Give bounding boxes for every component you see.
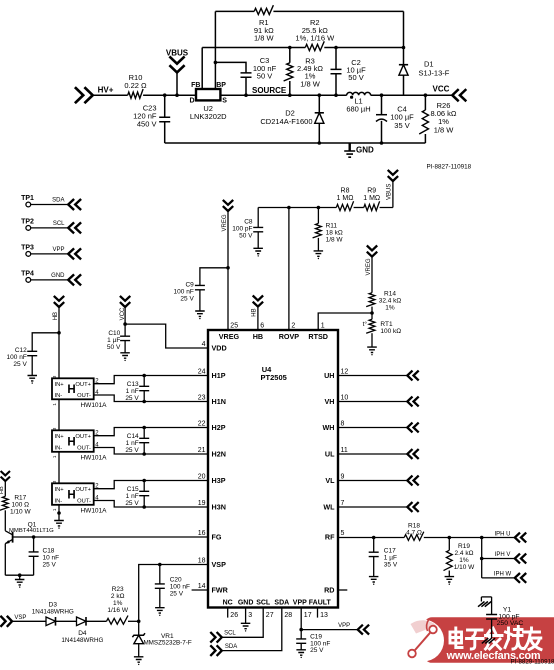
pin 22 H2P xyxy=(198,421,226,433)
wire xyxy=(424,536,515,540)
svg-text:12: 12 xyxy=(341,369,349,376)
resistor R8 xyxy=(336,188,353,211)
svg-text:HB: HB xyxy=(0,486,5,494)
pin 7 WL xyxy=(323,500,344,512)
wire xyxy=(143,94,196,96)
node VBUS xyxy=(166,49,189,97)
pin 1 RTSD xyxy=(308,323,328,341)
node HB xyxy=(53,296,64,320)
pin 16 FG xyxy=(198,530,222,542)
pin RD RD xyxy=(324,586,334,595)
pin 2 ROVP xyxy=(279,323,300,341)
svg-text:VCC: VCC xyxy=(433,84,450,93)
pin 13 FAULT xyxy=(309,599,332,619)
svg-text:1/8 W: 1/8 W xyxy=(326,236,344,243)
svg-text:IN-: IN- xyxy=(55,446,63,452)
svg-text:1N4148WRHG: 1N4148WRHG xyxy=(32,608,74,615)
svg-text:TP3: TP3 xyxy=(21,244,34,251)
svg-text:SDA: SDA xyxy=(52,198,64,204)
svg-text:10: 10 xyxy=(341,395,349,402)
svg-text:H: H xyxy=(67,489,75,501)
svg-text:24: 24 xyxy=(198,369,206,376)
svg-text:H2P: H2P xyxy=(212,423,226,432)
svg-text:TP1: TP1 xyxy=(21,195,34,202)
svg-text:16: 16 xyxy=(198,530,206,537)
pin 4 VDD xyxy=(202,341,227,353)
svg-text:28: 28 xyxy=(284,612,292,619)
svg-text:C20: C20 xyxy=(170,577,182,584)
svg-text:IN+: IN+ xyxy=(55,487,65,493)
svg-text:S1J-13-F: S1J-13-F xyxy=(419,69,450,78)
svg-text:18 kΩ: 18 kΩ xyxy=(326,229,343,236)
node VPP arrow xyxy=(338,623,369,634)
svg-text:1 MΩ: 1 MΩ xyxy=(363,195,380,202)
hall sensor H1 HW101A and capacitor C13 xyxy=(52,374,208,409)
svg-text:IPH U: IPH U xyxy=(494,532,510,538)
wire RF net xyxy=(338,536,404,540)
pin 21 H2N xyxy=(198,447,226,459)
ground xyxy=(54,521,64,529)
svg-text:25 V: 25 V xyxy=(125,500,139,507)
test point TP2 xyxy=(21,218,81,233)
svg-text:VL: VL xyxy=(325,476,335,485)
pin 11 UL xyxy=(325,447,348,459)
svg-text:t°: t° xyxy=(363,320,368,328)
svg-text:2 kΩ: 2 kΩ xyxy=(111,593,125,600)
svg-text:1 nF: 1 nF xyxy=(126,493,139,500)
hall sensor H2 HW101A and capacitor C14 xyxy=(52,426,208,462)
svg-text:FAULT: FAULT xyxy=(309,599,332,606)
svg-text:6: 6 xyxy=(260,323,264,330)
wire VL net xyxy=(338,476,419,486)
node VREG xyxy=(366,246,377,276)
resistor R11 xyxy=(313,208,344,260)
svg-text:VBUS: VBUS xyxy=(386,184,392,200)
resistor R23 xyxy=(107,586,129,624)
label PI-8829-110918 xyxy=(511,659,554,666)
wire WL net xyxy=(338,502,419,512)
svg-text:PI-8829-110918: PI-8829-110918 xyxy=(511,659,554,666)
svg-text:1%: 1% xyxy=(459,557,469,564)
svg-text:11: 11 xyxy=(341,447,348,454)
svg-text:R19: R19 xyxy=(458,543,470,550)
resistor R14 xyxy=(366,290,401,311)
svg-text:SCL: SCL xyxy=(256,599,271,606)
svg-text:1 MΩ: 1 MΩ xyxy=(337,195,354,202)
wire emitter rail xyxy=(5,573,33,577)
svg-text:H3P: H3P xyxy=(212,476,226,485)
svg-text:50 V: 50 V xyxy=(348,73,363,82)
svg-text:3: 3 xyxy=(248,612,252,619)
resistor R3 xyxy=(284,46,324,97)
svg-text:SDA: SDA xyxy=(225,644,237,650)
svg-text:OUT-: OUT- xyxy=(77,446,91,452)
ground xyxy=(344,143,374,157)
node VREG xyxy=(222,200,233,232)
resistor R1 xyxy=(254,5,275,42)
svg-text:TP4: TP4 xyxy=(21,270,34,277)
wire FG net xyxy=(13,535,208,539)
svg-text:IPH V: IPH V xyxy=(495,552,511,558)
ground xyxy=(15,575,25,588)
svg-text:CD214A-F1600: CD214A-F1600 xyxy=(260,117,312,126)
IC U4 PT2505 xyxy=(208,330,338,608)
chassis ground xyxy=(482,638,495,643)
svg-text:1: 1 xyxy=(321,323,325,330)
svg-text:VBUS: VBUS xyxy=(166,49,189,58)
svg-text:IN+: IN+ xyxy=(55,382,65,388)
svg-text:13: 13 xyxy=(320,612,328,619)
svg-text:PT2505: PT2505 xyxy=(261,373,287,382)
resistor R26 xyxy=(419,93,457,143)
svg-text:C18: C18 xyxy=(43,548,55,555)
svg-text:HV+: HV+ xyxy=(98,85,114,94)
wire IPH W xyxy=(482,577,515,579)
node IPH W arrow xyxy=(494,572,526,583)
svg-text:IN+: IN+ xyxy=(55,434,65,440)
wire SDA net xyxy=(222,608,282,651)
svg-text:ROVP: ROVP xyxy=(279,332,300,341)
pin 27 SCL xyxy=(256,599,273,619)
svg-text:C8: C8 xyxy=(244,218,253,225)
svg-text:OUT-: OUT- xyxy=(77,499,91,505)
svg-text:SDA: SDA xyxy=(274,599,289,606)
wire WH net xyxy=(338,423,419,433)
capacitor C17 xyxy=(369,538,398,585)
capacitor Y1 xyxy=(486,597,523,638)
svg-text:10 nF: 10 nF xyxy=(43,555,60,562)
transistor Q1 MMBT4401LT1G xyxy=(5,521,54,575)
pin 10 VH xyxy=(325,395,349,407)
node HB xyxy=(252,296,263,330)
wire FWR stub xyxy=(192,589,208,591)
svg-text:VREG: VREG xyxy=(366,258,372,275)
svg-text:UL: UL xyxy=(325,450,335,459)
svg-text:H1N: H1N xyxy=(212,397,226,406)
svg-text:50 V: 50 V xyxy=(257,71,272,80)
svg-text:17: 17 xyxy=(304,612,312,619)
wire xyxy=(12,620,46,622)
svg-text:SOURCE: SOURCE xyxy=(252,86,287,95)
svg-text:R14: R14 xyxy=(384,290,396,297)
capacitor C18 xyxy=(29,537,60,575)
svg-text:RT1: RT1 xyxy=(380,321,393,328)
svg-text:TP2: TP2 xyxy=(21,218,34,225)
node SOURCE xyxy=(252,86,287,95)
wire SCL net xyxy=(222,608,263,638)
wire VPP net xyxy=(299,608,357,632)
capacitor C19 xyxy=(296,630,330,659)
diode D1 xyxy=(399,11,450,95)
svg-text:100 Ω: 100 Ω xyxy=(12,501,30,508)
resistor R17 xyxy=(0,494,31,515)
svg-text:GND: GND xyxy=(51,273,65,279)
pin 25 VREG xyxy=(219,323,240,341)
wire NC stub xyxy=(227,608,229,618)
svg-text:VSP: VSP xyxy=(14,615,26,621)
svg-text:7: 7 xyxy=(341,500,345,507)
pin 8 WH xyxy=(323,421,345,433)
svg-text:R18: R18 xyxy=(408,522,420,529)
svg-text:FG: FG xyxy=(212,533,222,542)
ground pin3 xyxy=(241,608,251,632)
svg-text:VREG: VREG xyxy=(219,332,240,341)
diode D2 xyxy=(260,93,324,144)
inductor L1 xyxy=(346,92,370,113)
svg-text:R17: R17 xyxy=(14,494,26,501)
svg-text:R11: R11 xyxy=(326,222,338,229)
svg-text:R8: R8 xyxy=(341,188,350,195)
svg-text:OUT+: OUT+ xyxy=(75,434,91,440)
svg-text:VPP: VPP xyxy=(52,247,64,253)
wire IPH V xyxy=(482,558,515,560)
label PI-8827-110918 xyxy=(426,164,471,171)
pin 6 HB xyxy=(253,323,265,341)
svg-text:C17: C17 xyxy=(384,548,396,555)
svg-text:4: 4 xyxy=(202,341,206,348)
svg-text:FWR: FWR xyxy=(212,586,229,595)
svg-text:32.4 kΩ: 32.4 kΩ xyxy=(379,297,402,304)
svg-text:25 V: 25 V xyxy=(43,562,57,569)
capacitor C3 xyxy=(215,56,276,97)
svg-text:14: 14 xyxy=(198,583,206,590)
pin 12 UH xyxy=(324,369,348,381)
svg-text:HW101A: HW101A xyxy=(80,507,107,514)
resistor R10 xyxy=(124,73,147,98)
svg-text:HB: HB xyxy=(252,308,258,316)
svg-text:HB: HB xyxy=(253,332,263,341)
svg-text:100 nF: 100 nF xyxy=(7,354,27,361)
svg-text:18: 18 xyxy=(198,558,206,565)
svg-text:0.22 Ω: 0.22 Ω xyxy=(124,81,147,90)
svg-text:UH: UH xyxy=(324,371,334,380)
svg-text:MMSZ5232B-7-F: MMSZ5232B-7-F xyxy=(143,639,191,646)
svg-text:1/8 W: 1/8 W xyxy=(254,33,275,42)
svg-text:H: H xyxy=(67,436,75,448)
svg-text:VDD: VDD xyxy=(212,344,227,353)
svg-text:C12: C12 xyxy=(15,347,27,354)
svg-text:PI-8827-110918: PI-8827-110918 xyxy=(426,164,471,171)
wire xyxy=(324,47,403,49)
wire VDD net xyxy=(123,307,208,348)
capacitor C12 xyxy=(7,333,59,384)
svg-text:50 V: 50 V xyxy=(107,344,121,351)
svg-text:H: H xyxy=(67,384,75,396)
wire VREG net xyxy=(226,211,230,329)
svg-text:100 nF: 100 nF xyxy=(174,289,194,296)
IC U2 LNK3202D xyxy=(189,82,227,121)
pin 14 FWR xyxy=(198,583,229,595)
svg-text:25 V: 25 V xyxy=(180,296,194,303)
svg-text:1%: 1% xyxy=(385,304,395,311)
diode D4 xyxy=(61,617,103,644)
svg-text:D4: D4 xyxy=(78,630,87,637)
pin 18 VSP xyxy=(198,558,226,570)
resistor R19 xyxy=(444,538,476,585)
svg-text:H3N: H3N xyxy=(212,503,226,512)
wire xyxy=(4,510,6,531)
svg-text:1/10 W: 1/10 W xyxy=(454,564,475,571)
svg-text:4.7 Ω: 4.7 Ω xyxy=(406,529,422,536)
svg-text:GND: GND xyxy=(356,145,374,154)
wire S rail xyxy=(220,94,425,96)
wire FB net xyxy=(202,47,305,49)
svg-text:OUT-: OUT- xyxy=(77,393,91,399)
wire BP pin xyxy=(214,11,218,89)
svg-text:1 nF: 1 nF xyxy=(126,440,139,447)
svg-text:OUT+: OUT+ xyxy=(75,487,91,493)
pin 23 H1N xyxy=(198,395,226,407)
wire xyxy=(354,207,364,209)
svg-text:NC: NC xyxy=(223,599,233,606)
svg-text:S: S xyxy=(222,98,227,105)
svg-text:RF: RF xyxy=(325,533,335,542)
svg-text:1/8 W: 1/8 W xyxy=(434,125,455,134)
capacitor C4 xyxy=(376,93,414,144)
svg-text:1 µF: 1 µF xyxy=(384,555,397,562)
wire bottom rail xyxy=(165,142,426,144)
svg-text:D: D xyxy=(189,98,194,105)
svg-text:C13: C13 xyxy=(127,381,139,388)
capacitor C10 xyxy=(107,324,130,361)
svg-text:450 V: 450 V xyxy=(137,120,157,129)
wire xyxy=(371,257,373,293)
svg-text:LNK3202D: LNK3202D xyxy=(190,112,227,121)
svg-text:100 pF: 100 pF xyxy=(232,225,252,232)
hall sensor H3 HW101A and capacitor C15 xyxy=(52,479,208,515)
svg-text:1 nF: 1 nF xyxy=(126,388,139,395)
wire xyxy=(370,307,374,320)
wire hall chain xyxy=(57,399,61,520)
svg-text:25 V: 25 V xyxy=(125,447,139,454)
wire RD stub xyxy=(338,589,347,591)
capacitor C23 xyxy=(133,93,170,143)
wire top net xyxy=(215,10,254,12)
svg-text:BP: BP xyxy=(216,82,226,89)
svg-text:H2N: H2N xyxy=(212,450,226,459)
svg-text:1%, 1/16 W: 1%, 1/16 W xyxy=(295,33,335,42)
capacitor C8 xyxy=(232,208,263,257)
wire VSP net xyxy=(139,563,208,622)
svg-text:IN-: IN- xyxy=(55,499,63,505)
watermark elecfans logo xyxy=(402,617,554,663)
diode D3 xyxy=(32,601,74,625)
svg-text:25 V: 25 V xyxy=(13,361,27,368)
wire xyxy=(86,620,107,622)
svg-text:25 V: 25 V xyxy=(125,395,139,402)
node HV+ input arrow xyxy=(75,85,114,103)
node IPH U arrow xyxy=(494,532,526,543)
svg-text:1N4148WRHG: 1N4148WRHG xyxy=(61,637,103,644)
svg-text:D3: D3 xyxy=(49,601,58,608)
wire xyxy=(4,481,6,496)
pin 17 VPP xyxy=(293,599,312,619)
svg-text:25 V: 25 V xyxy=(310,647,324,654)
svg-text:35 V: 35 V xyxy=(384,562,398,569)
svg-text:8: 8 xyxy=(341,421,345,428)
svg-text:20: 20 xyxy=(198,474,206,481)
svg-text:FB: FB xyxy=(191,82,200,89)
thermistor RT1 xyxy=(363,319,402,355)
node IPH V arrow xyxy=(495,552,527,563)
pin 20 H3P xyxy=(198,474,226,486)
wire xyxy=(273,10,403,12)
svg-text:25 V: 25 V xyxy=(170,591,184,598)
node VCC xyxy=(425,84,466,101)
svg-text:VSP: VSP xyxy=(212,560,227,569)
svg-text:VREG: VREG xyxy=(222,214,228,231)
svg-text:1 µF: 1 µF xyxy=(107,337,120,344)
wire xyxy=(128,620,141,624)
pin 9 VL xyxy=(325,474,344,486)
svg-text:R9: R9 xyxy=(367,188,376,195)
svg-text:VPP: VPP xyxy=(338,623,350,629)
svg-text:VH: VH xyxy=(325,397,335,406)
svg-text:IN-: IN- xyxy=(55,393,63,399)
svg-text:HB: HB xyxy=(53,312,59,320)
svg-text:C14: C14 xyxy=(127,433,139,440)
svg-text:VPP: VPP xyxy=(293,599,307,606)
svg-text:23: 23 xyxy=(198,395,206,402)
wire HB net xyxy=(57,307,61,378)
svg-text:1/10 W: 1/10 W xyxy=(10,508,31,515)
svg-text:HW101A: HW101A xyxy=(80,454,107,461)
wire FB pin xyxy=(201,48,203,90)
svg-text:R23: R23 xyxy=(112,586,124,593)
svg-text:1%: 1% xyxy=(113,600,123,607)
svg-text:MMBT4401LT1G: MMBT4401LT1G xyxy=(9,528,54,534)
svg-text:2.4 kΩ: 2.4 kΩ xyxy=(455,550,474,557)
test point TP1 xyxy=(21,195,81,210)
node VCC xyxy=(120,296,130,320)
svg-text:RTSD: RTSD xyxy=(308,332,328,341)
resistor R18 xyxy=(404,522,424,540)
svg-text:H1P: H1P xyxy=(212,371,226,380)
svg-text:C15: C15 xyxy=(127,486,139,493)
svg-text:100 nF: 100 nF xyxy=(170,584,190,591)
svg-text:680 µH: 680 µH xyxy=(346,105,370,114)
pin 28 SDA xyxy=(274,599,292,619)
resistor R2 xyxy=(295,18,335,50)
pin 5 RF xyxy=(325,530,345,542)
svg-text:25: 25 xyxy=(230,323,238,330)
svg-text:1/8 W: 1/8 W xyxy=(300,79,321,88)
pin 19 H3N xyxy=(198,500,226,512)
capacitor C2 xyxy=(331,46,367,97)
svg-text:1/16 W: 1/16 W xyxy=(107,607,128,614)
svg-text:5: 5 xyxy=(341,530,345,537)
svg-text:21: 21 xyxy=(198,447,206,454)
svg-text:50 V: 50 V xyxy=(239,232,253,239)
node VSP input arrow xyxy=(0,615,26,627)
svg-text:19: 19 xyxy=(198,500,206,507)
svg-text:SCL: SCL xyxy=(53,221,65,227)
svg-text:9: 9 xyxy=(341,474,345,481)
svg-text:2: 2 xyxy=(291,323,295,330)
pin 3 GND xyxy=(238,599,254,619)
node HB xyxy=(0,471,10,494)
svg-text:22: 22 xyxy=(198,421,206,428)
svg-text:C9: C9 xyxy=(185,282,194,289)
pin 26 NC xyxy=(223,599,239,619)
zener VR1 MMSZ5232B-7-F xyxy=(132,621,191,665)
svg-text:SCL: SCL xyxy=(224,631,236,637)
svg-text:250 VAC: 250 VAC xyxy=(497,620,524,627)
svg-text:OUT+: OUT+ xyxy=(75,382,91,388)
svg-text:IPH W: IPH W xyxy=(494,572,512,578)
svg-text:100 kΩ: 100 kΩ xyxy=(380,328,401,335)
wire IPH branch xyxy=(480,538,484,578)
